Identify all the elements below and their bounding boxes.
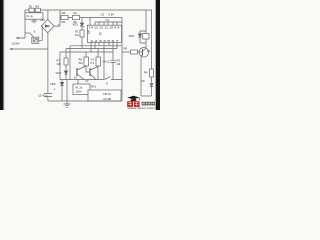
relay contact K [105, 77, 123, 80]
diode VD5 [61, 80, 63, 83]
wire second rail [60, 17, 122, 19]
capacitor C2 [73, 15, 80, 19]
resistor R1 [29, 8, 34, 12]
resistor R4 [150, 69, 154, 77]
resistor R4 [35, 8, 40, 12]
wire top pin bus [95, 18, 122, 26]
capacitor C6 [110, 60, 116, 79]
wire left risers [60, 46, 70, 80]
wire bridge right vertex riser [54, 10, 60, 26]
svg-text:VD5: VD5 [50, 82, 56, 86]
svg-text:V1: V1 [147, 49, 151, 53]
transistor V1 [139, 48, 149, 58]
svg-text:R4: R4 [35, 4, 39, 8]
zener diode VD1 [81, 18, 83, 23]
wire below C5 [47, 97, 49, 101]
svg-text:+: + [58, 23, 60, 27]
svg-text:14 13 12 11 10 9 8: 14 13 12 11 10 9 8 [89, 27, 120, 30]
svg-text:220V: 220V [76, 90, 82, 94]
diode VD3 [139, 31, 141, 34]
relay coil box [143, 34, 149, 40]
right scan bar [156, 0, 160, 110]
IC U1 [88, 25, 122, 42]
svg-text:VD3: VD3 [129, 34, 135, 38]
watermark red char 2 [134, 101, 140, 107]
svg-text:R7: R7 [57, 58, 61, 62]
ground [64, 101, 71, 107]
wire arrow lead upper arrowhead [16, 37, 19, 39]
svg-text:0.1: 0.1 [91, 61, 95, 65]
wire relay column top [140, 10, 146, 31]
wire ground drop [66, 80, 68, 102]
svg-text:+: + [54, 88, 56, 92]
wire rail drop to IC pin 14 [89, 18, 91, 26]
svg-text:1 2 3 4 5 6 7: 1 2 3 4 5 6 7 [91, 40, 120, 43]
wire fuse to bridge left vertex [39, 26, 42, 40]
svg-text:10k: 10k [57, 62, 62, 66]
capacitor C1 box [25, 13, 43, 19]
IC bottom pins [91, 43, 117, 80]
fuse FU box [32, 37, 39, 43]
svg-text:VD1: VD1 [73, 22, 79, 26]
wire bottom rail [48, 100, 122, 102]
load box [73, 84, 90, 95]
switch S [30, 33, 34, 37]
svg-text:AC 6B: AC 6B [103, 97, 111, 101]
diode VD4 [64, 71, 67, 74]
capacitor C4 [96, 57, 101, 66]
svg-text:R1: R1 [29, 4, 33, 8]
wire left vertical drop [24, 10, 26, 33]
wire bottom right node [141, 95, 152, 97]
relay KB box [88, 90, 121, 101]
svg-text:RL 2k: RL 2k [76, 86, 83, 90]
diode VD6 [150, 84, 153, 86]
svg-text:C1 4μ: C1 4μ [26, 15, 33, 18]
svg-text:V2: V2 [74, 76, 78, 80]
bridge rectifier UR [41, 19, 54, 32]
resistor R9 [84, 57, 89, 66]
svg-text:K: K [106, 82, 108, 86]
resistor R2 [80, 30, 84, 37]
svg-text:R8: R8 [124, 47, 128, 51]
transistor V3 [89, 68, 91, 76]
svg-text:5k1: 5k1 [79, 61, 84, 65]
svg-text:C6 01: C6 01 [103, 60, 110, 63]
resistor R8 [131, 50, 138, 54]
watermark small dark chars [142, 102, 155, 106]
watermark cap logo [127, 96, 139, 100]
svg-text:C5 47μ: C5 47μ [38, 93, 48, 97]
wire right resistor branch [151, 10, 153, 69]
capacitor C5 plates [44, 94, 52, 97]
svg-text:R9: R9 [79, 57, 83, 61]
wire top rail [25, 9, 152, 11]
capacitor C1 plates [32, 20, 37, 23]
svg-text:5.6V: 5.6V [109, 12, 115, 16]
wire V1 emitter down [140, 57, 142, 96]
wire rail to bridge top [47, 10, 49, 19]
resistor R5 [61, 15, 68, 19]
wire emitter rail [60, 79, 104, 81]
wire 220V upper lead [16, 33, 25, 38]
svg-text:R4: R4 [144, 70, 148, 74]
svg-text:C4: C4 [106, 18, 110, 22]
wire bridge bottom down (DC minus) [47, 33, 49, 93]
wire switch branch [25, 32, 30, 34]
resistor R7 [65, 49, 67, 59]
svg-text:S: S [34, 29, 36, 33]
svg-text:www.dzsc.com: www.dzsc.com [128, 107, 155, 110]
watermark red char 1 [127, 101, 133, 107]
wire right control column [121, 22, 123, 101]
svg-text:C3: C3 [101, 12, 105, 16]
wire 220V arrow lead [10, 48, 48, 50]
svg-text:R5: R5 [62, 11, 66, 15]
svg-text:1M: 1M [75, 33, 79, 37]
svg-text:C4: C4 [91, 57, 95, 61]
svg-text:VD4: VD4 [56, 71, 62, 75]
svg-text:~220V: ~220V [11, 42, 20, 46]
transistor V2 [76, 68, 78, 76]
svg-text:V3: V3 [85, 79, 89, 83]
svg-text:JR-1: JR-1 [91, 85, 97, 89]
svg-text:C2: C2 [73, 11, 77, 15]
wire routing channel [60, 46, 122, 52]
svg-text:R3: R3 [117, 58, 121, 62]
svg-text:VD: VD [141, 79, 145, 83]
left scan bar [0, 0, 3, 110]
svg-text:KB 3A: KB 3A [103, 92, 111, 96]
